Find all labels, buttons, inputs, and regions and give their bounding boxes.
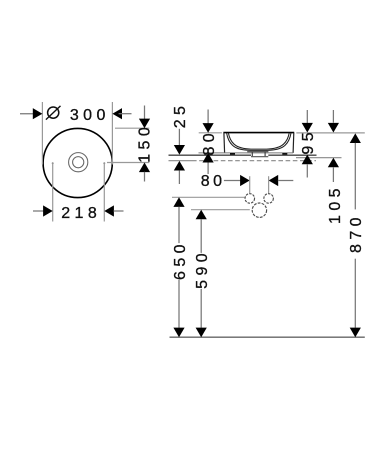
svg-text:650: 650 bbox=[172, 240, 189, 280]
svg-text:870: 870 bbox=[348, 213, 365, 253]
svg-text:150: 150 bbox=[137, 123, 154, 163]
svg-text:590: 590 bbox=[194, 249, 211, 289]
svg-text:300: 300 bbox=[70, 107, 110, 124]
svg-text:25: 25 bbox=[172, 102, 189, 129]
svg-text:105: 105 bbox=[327, 184, 344, 224]
svg-text:95: 95 bbox=[300, 128, 317, 155]
svg-text:218: 218 bbox=[61, 205, 101, 222]
svg-text:80: 80 bbox=[201, 173, 226, 190]
svg-text:80: 80 bbox=[201, 129, 218, 156]
